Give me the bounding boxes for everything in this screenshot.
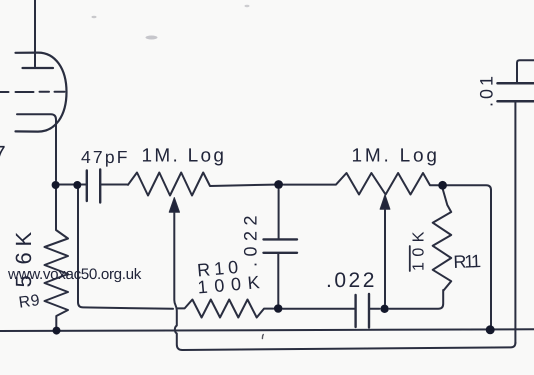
svg-text:1M. Log: 1M. Log	[142, 146, 227, 167]
svg-text:.022: .022	[326, 269, 377, 292]
svg-text:K: K	[11, 232, 36, 247]
svg-text:10K: 10K	[411, 226, 428, 271]
svg-text:www.voxac50.org.uk: www.voxac50.org.uk	[7, 266, 142, 283]
svg-text:1M. Log: 1M. Log	[352, 146, 440, 167]
svg-text:6: 6	[11, 252, 36, 264]
svg-text:R11: R11	[453, 251, 481, 272]
svg-text:47pF: 47pF	[81, 147, 130, 167]
svg-text:R9: R9	[18, 292, 42, 312]
svg-text:.022: .022	[241, 210, 261, 267]
svg-text:7: 7	[0, 141, 6, 166]
svg-text:.01: .01	[477, 73, 497, 107]
